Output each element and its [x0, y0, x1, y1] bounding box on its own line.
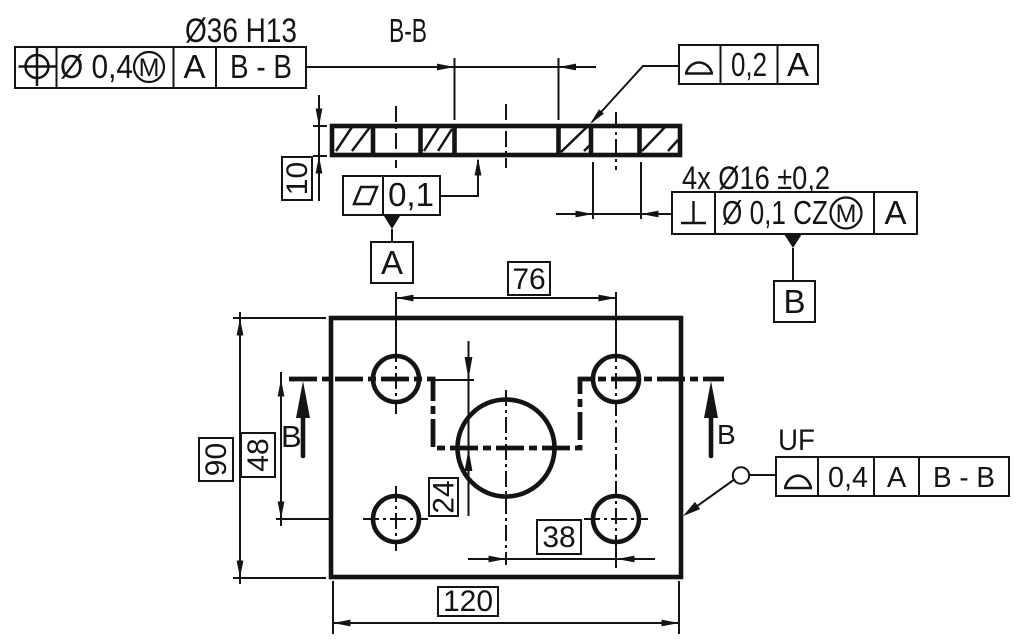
svg-text:76: 76: [512, 263, 545, 296]
svg-text:4x Ø16 ±0,2: 4x Ø16 ±0,2: [682, 160, 830, 196]
position FCF top-left: [15, 47, 306, 88]
hatching segment 4: [642, 125, 678, 151]
datum A triangle: [384, 216, 400, 242]
label box 24: [428, 478, 461, 516]
svg-text:0,4: 0,4: [828, 462, 868, 494]
label box 120: [438, 585, 498, 618]
hole top-right: [593, 356, 639, 402]
centerline bottom-left hole horizontal: [363, 518, 428, 520]
leader from UF FCF with all-around circle: [683, 467, 776, 516]
dimension line 4x dia16: [556, 211, 672, 218]
profile FCF UF: [776, 457, 1009, 496]
svg-text:0,1: 0,1: [388, 176, 434, 213]
hole top-left: [373, 356, 419, 402]
plan view plate outline: [331, 318, 681, 577]
hatching segment 3: [561, 125, 590, 152]
leader from profile FCF to section: [590, 66, 679, 124]
svg-text:48: 48: [242, 438, 275, 471]
svg-text:B - B: B - B: [230, 48, 292, 85]
svg-text:A: A: [381, 244, 403, 281]
dimension 48: [276, 372, 330, 526]
svg-text:B: B: [281, 419, 302, 454]
center hole dia36: [458, 400, 555, 497]
svg-text:90: 90: [200, 443, 233, 476]
svg-text:Ø 0,1 CZ: Ø 0,1 CZ: [722, 194, 828, 231]
hatching segment 2: [424, 127, 452, 151]
svg-text:A: A: [183, 48, 205, 85]
perpendicularity FCF: [672, 192, 917, 234]
hole bottom-right: [593, 496, 639, 542]
section centerline left hole: [395, 106, 397, 168]
svg-text:0,2: 0,2: [731, 46, 767, 83]
svg-text:A: A: [884, 194, 906, 231]
datum A box: [371, 242, 413, 283]
svg-text:UF: UF: [778, 424, 815, 457]
label box 10: [281, 157, 314, 200]
extension lines 4x dia16: [593, 162, 641, 219]
svg-text:B: B: [783, 283, 805, 320]
svg-text:Ø36 H13: Ø36 H13: [185, 12, 297, 50]
dimension 120: [333, 581, 679, 634]
svg-text:38: 38: [542, 521, 575, 554]
section view plate outline: [332, 126, 680, 155]
dimension 24: [433, 341, 474, 516]
svg-text:B-B: B-B: [389, 12, 427, 49]
datum B triangle: [784, 234, 802, 281]
dimension 90: [233, 312, 326, 584]
section centerline middle hole: [505, 104, 507, 168]
centerline top-left hole: [395, 292, 397, 414]
svg-text:M: M: [836, 200, 857, 228]
centerline top-right and bottom-right holes: [615, 292, 617, 568]
dimension 10 vertical line with arrows: [313, 95, 327, 201]
section arrow B right: [704, 381, 718, 456]
label box 76: [508, 262, 550, 296]
flatness leader arrow: [440, 158, 481, 196]
section cutting line B-B stepped: [289, 379, 724, 448]
dimension line dia36 with leader to position FCF: [306, 64, 596, 71]
datum B box: [774, 281, 815, 322]
svg-text:120: 120: [443, 585, 493, 618]
centerline center hole vertical: [505, 390, 507, 565]
label box 90: [199, 438, 233, 481]
profile FCF top-right: [679, 45, 818, 84]
hatching segment 1: [336, 127, 370, 151]
svg-text:B: B: [717, 419, 736, 450]
svg-text:24: 24: [428, 480, 461, 513]
dimension 76: [396, 295, 616, 302]
flatness FCF: [343, 176, 440, 215]
label box 48: [241, 433, 275, 477]
label box 38: [537, 520, 581, 554]
extension lines dia36: [455, 58, 559, 120]
section hole wall edges: [373, 126, 640, 155]
section centerline right hole: [615, 112, 617, 170]
centerline bottom-right hole horizontal: [584, 518, 648, 520]
svg-text:A: A: [787, 46, 809, 83]
svg-text:B - B: B - B: [933, 462, 995, 494]
hole bottom-left: [373, 496, 419, 542]
svg-text:Ø 0,4: Ø 0,4: [60, 48, 133, 85]
svg-text:A: A: [887, 462, 907, 494]
dimension 38: [468, 556, 655, 563]
centerline bottom-left hole vertical: [395, 486, 397, 551]
svg-text:M: M: [139, 54, 160, 82]
svg-text:10: 10: [281, 162, 314, 195]
section arrow B left: [296, 381, 310, 456]
